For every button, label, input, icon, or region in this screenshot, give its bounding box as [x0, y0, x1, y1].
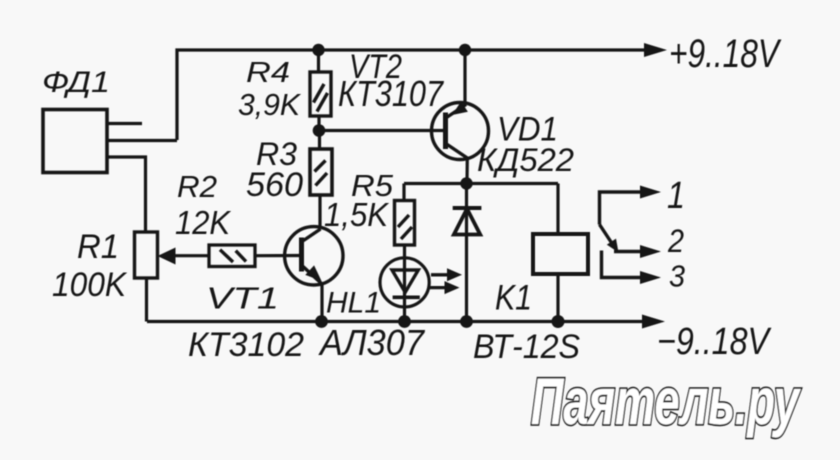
svg-text:K1: K1: [495, 279, 532, 318]
relay K1 coil: [533, 184, 588, 322]
relay contact 3: [602, 251, 662, 285]
svg-text:R1: R1: [77, 228, 119, 266]
potentiometer R1: [135, 232, 176, 322]
relay contact arm: [600, 225, 619, 253]
wire VT2 emitter to rail: [463, 50, 466, 104]
svg-text:Паятель.ру: Паятель.ру: [531, 364, 801, 438]
node top rail R4: [312, 44, 324, 56]
resistor R5: [395, 184, 415, 260]
resistor R4: [310, 50, 331, 130]
wire FD1 middle pin to rail riser: [107, 139, 177, 142]
svg-text:VT1: VT1: [206, 281, 279, 316]
svg-text:560: 560: [246, 166, 303, 204]
node bottom rail VD1: [460, 315, 473, 328]
svg-text:КТ3102: КТ3102: [188, 326, 304, 364]
svg-text:HL1: HL1: [326, 287, 381, 320]
node top rail VT2: [459, 44, 471, 56]
node bottom rail VT1: [315, 315, 328, 328]
svg-text:−9..18V: −9..18V: [657, 321, 772, 363]
wire top rail arrow: [644, 43, 667, 57]
wire FD1 bottom pin to R1: [107, 157, 146, 233]
svg-text:1,5K: 1,5K: [324, 196, 390, 233]
transistor VT2: [432, 102, 489, 160]
photodiode FD1 box: [43, 110, 107, 173]
wire FD1 stub pin: [107, 122, 142, 125]
svg-text:3: 3: [669, 259, 685, 294]
node R4 bottom: [313, 124, 326, 137]
svg-text:12K: 12K: [175, 204, 232, 241]
svg-text:КТ3107: КТ3107: [338, 73, 445, 114]
transistor VT1: [285, 227, 343, 285]
svg-text:100K: 100K: [52, 266, 127, 304]
svg-text:2: 2: [667, 223, 684, 259]
wire VT2 base: [319, 129, 446, 132]
resistor R2: [173, 245, 302, 267]
wire top rail: [177, 50, 659, 140]
svg-text:АЛ307: АЛ307: [318, 322, 426, 363]
svg-text:1: 1: [667, 175, 685, 217]
resistor R3: [310, 130, 332, 229]
node bottom rail HL1: [398, 315, 411, 328]
relay contact 1: [600, 186, 662, 225]
diode VD1: [453, 183, 482, 321]
node bottom rail K1: [552, 315, 565, 328]
wire bottom rail: [147, 320, 643, 323]
node VD1 top: [460, 177, 472, 189]
svg-text:R4: R4: [246, 57, 290, 89]
svg-text:+9..18V: +9..18V: [669, 32, 782, 76]
svg-text:ФД1: ФД1: [42, 66, 110, 99]
svg-text:R2: R2: [177, 169, 217, 204]
wire bottom rail arrow: [642, 315, 665, 329]
svg-text:ВТ-12S: ВТ-12S: [473, 328, 580, 366]
svg-text:3,9K: 3,9K: [238, 87, 301, 122]
wire VT1 emitter to rail: [320, 284, 323, 322]
wire node line R5 to K1: [404, 182, 558, 185]
relay contact 2: [614, 245, 661, 258]
wire VT2 collector to node: [465, 158, 468, 184]
LED HL1: [380, 258, 462, 321]
svg-text:КД522: КД522: [477, 142, 574, 178]
